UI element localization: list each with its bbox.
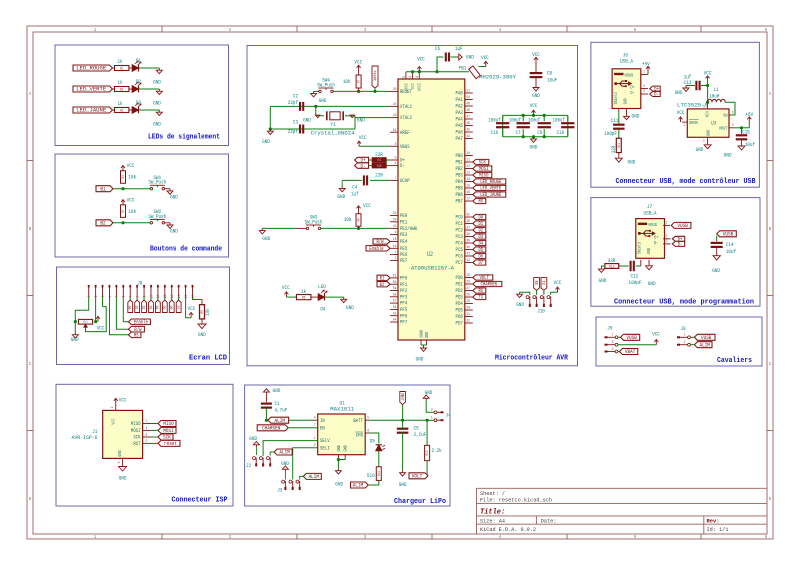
- svg-text:D3: D3: [147, 306, 151, 310]
- IC U3 LTC3525-5: [687, 109, 729, 137]
- svg-text:PD3: PD3: [456, 295, 463, 301]
- svg-text:PC7: PC7: [456, 260, 463, 266]
- svg-text:15: 15: [466, 185, 470, 189]
- svg-text:Connecteur USB, mode contrôleu: Connecteur USB, mode contrôleur USB: [616, 178, 757, 186]
- svg-text:R6: R6: [302, 296, 306, 300]
- capacitor C15 10uf: [741, 128, 743, 134]
- wire: [151, 442, 158, 444]
- svg-text:C4: C4: [352, 183, 357, 190]
- svg-text:Id: 1/1: Id: 1/1: [707, 527, 729, 533]
- svg-text:SCK: SCK: [133, 435, 141, 441]
- svg-text:1uf: 1uf: [351, 190, 359, 197]
- svg-text:PF6: PF6: [400, 313, 407, 319]
- svg-text:GND: GND: [262, 235, 270, 242]
- svg-text:EN: EN: [320, 425, 325, 431]
- svg-text:SW_Push: SW_Push: [148, 213, 166, 220]
- svg-text:R10: R10: [377, 165, 382, 169]
- svg-text:22pf: 22pf: [288, 128, 298, 135]
- VCC to SHDN: [682, 121, 687, 123]
- svg-text:D+: D+: [654, 234, 659, 240]
- svg-text:D5: D5: [161, 306, 165, 310]
- svg-text:GND: GND: [71, 336, 79, 343]
- svg-text:R4: R4: [122, 175, 126, 178]
- svg-text:4,7uF: 4,7uF: [275, 407, 288, 414]
- svg-text:GND: GND: [706, 130, 711, 136]
- IC U1 MAX1811: [318, 414, 366, 455]
- svg-text:J10: J10: [537, 307, 545, 314]
- svg-text:LED_JAUNE: LED_JAUNE: [480, 192, 501, 198]
- svg-text:GND: GND: [416, 355, 424, 362]
- svg-text:AT90USB1287-A: AT90USB1287-A: [411, 265, 455, 272]
- svg-text:100uf: 100uf: [553, 118, 565, 124]
- svg-text:34: 34: [393, 218, 397, 222]
- resistor R7 10k: [121, 205, 126, 218]
- svg-text:TX: TX: [478, 295, 483, 301]
- svg-text:SCK: SCK: [479, 160, 486, 166]
- ground: [343, 297, 345, 299]
- svg-text:SW_Push: SW_Push: [317, 81, 335, 88]
- wire BATT: [365, 419, 369, 421]
- ferrite bead FB1 MH2029-300Y: [469, 66, 481, 79]
- svg-text:VOLT: VOLT: [480, 275, 489, 281]
- svg-text:31: 31: [402, 75, 406, 79]
- global label B1 on PF0: [377, 275, 390, 280]
- svg-text:FB1: FB1: [459, 65, 467, 72]
- svg-text:PF2: PF2: [400, 288, 407, 294]
- svg-text:58: 58: [393, 293, 397, 297]
- ground: [402, 471, 404, 473]
- svg-text:CHARGEN: CHARGEN: [262, 425, 280, 432]
- svg-text:10k: 10k: [205, 308, 211, 315]
- LED D3: [129, 109, 132, 111]
- global label B2: [96, 220, 113, 226]
- svg-text:46: 46: [466, 122, 470, 126]
- svg-text:D2: D2: [478, 228, 483, 234]
- wire: [270, 452, 274, 456]
- svg-text:PA5: PA5: [456, 123, 463, 129]
- right side labels on U2: [473, 159, 489, 164]
- svg-text:D-: D-: [654, 92, 659, 98]
- svg-text:VCC: VCC: [97, 324, 105, 331]
- svg-text:Boutons de commande: Boutons de commande: [150, 246, 222, 254]
- wire: [186, 297, 192, 318]
- ground: [601, 266, 605, 269]
- svg-text:D7: D7: [478, 260, 483, 266]
- svg-text:D1: D1: [133, 306, 137, 310]
- VCC: [190, 313, 192, 318]
- svg-text:VBUS: VBUS: [624, 72, 633, 78]
- ground: [618, 153, 620, 159]
- svg-text:CHARGEN: CHARGEN: [481, 282, 497, 288]
- LED D1: [129, 67, 132, 69]
- svg-text:D5: D5: [478, 247, 483, 253]
- labels D0-D7: [129, 297, 131, 300]
- svg-text:ALIM: ALIM: [309, 473, 319, 480]
- resistor R5 10k: [200, 305, 205, 319]
- svg-text:VCC: VCC: [530, 102, 538, 109]
- svg-text:PB1: PB1: [456, 160, 463, 166]
- wire: [151, 429, 158, 431]
- section box Microcontroleur AVR: [247, 46, 578, 366]
- switch SW2 SW_Push: [150, 222, 152, 224]
- svg-text:VBAT: VBAT: [399, 393, 404, 401]
- svg-text:62: 62: [393, 129, 397, 133]
- capacitor C5 2,2uF: [397, 428, 409, 430]
- VCC: [707, 77, 709, 82]
- svg-text:GND: GND: [532, 92, 540, 99]
- svg-text:AREF: AREF: [400, 130, 410, 136]
- global label Enable on PE5: [366, 246, 390, 251]
- svg-text:RS: RS: [478, 199, 483, 205]
- ground: [426, 401, 434, 413]
- svg-text:PD5: PD5: [456, 308, 463, 314]
- ground: [626, 109, 628, 115]
- svg-text:C3: C3: [293, 118, 298, 125]
- resistor 33R: [616, 138, 621, 152]
- svg-text:PA7: PA7: [456, 136, 463, 142]
- svg-text:48: 48: [466, 109, 470, 113]
- svg-text:41: 41: [466, 253, 470, 257]
- svg-text:D1: D1: [136, 57, 141, 64]
- svg-text:10uf: 10uf: [745, 141, 755, 148]
- svg-text:1k: 1k: [117, 79, 122, 86]
- svg-text:GND: GND: [712, 267, 720, 274]
- section box Chargeur LiPo: [245, 385, 450, 506]
- svg-text:GND: GND: [153, 78, 161, 85]
- svg-text:Cavaliers: Cavaliers: [717, 357, 752, 365]
- ground: [165, 188, 171, 190]
- global label SCK: [158, 434, 173, 440]
- svg-text:GND: GND: [399, 481, 407, 488]
- svg-text:Shield: Shield: [614, 92, 619, 104]
- wire: [86, 307, 107, 332]
- global label LED_JAUNE: [73, 107, 112, 113]
- svg-text:D4: D4: [478, 241, 483, 247]
- crystal Y1 Crystal_GND24: [326, 111, 328, 120]
- svg-text:PD1: PD1: [456, 282, 463, 288]
- svg-text:BATT: BATT: [353, 418, 363, 424]
- svg-text:RX: RX: [533, 281, 539, 285]
- svg-text:26: 26: [466, 281, 470, 285]
- capacitor C14 10uf and VUSB: [717, 231, 737, 237]
- wire to VCC: [618, 344, 656, 346]
- svg-text:XTAL1: XTAL1: [400, 104, 412, 110]
- svg-text:GND: GND: [530, 144, 538, 151]
- svg-text:ALIM: ALIM: [279, 449, 289, 456]
- shield pin: [640, 260, 642, 266]
- svg-text:100uf: 100uf: [528, 118, 540, 124]
- svg-text:Connecteur ISP: Connecteur ISP: [172, 497, 229, 505]
- svg-text:PE4: PE4: [400, 239, 407, 245]
- svg-text:PB3: PB3: [456, 173, 463, 179]
- pin VBUS to VUSB: [663, 224, 670, 226]
- global label VOLT: [409, 473, 428, 479]
- svg-text:B1: B1: [100, 185, 106, 192]
- svg-text:61: 61: [393, 275, 397, 279]
- svg-text:UGND: UGND: [419, 330, 424, 338]
- section box Cavaliers: [596, 317, 762, 366]
- svg-text:VUSB: VUSB: [723, 231, 734, 238]
- svg-text:PF0: PF0: [400, 276, 407, 282]
- svg-text:1k: 1k: [117, 100, 122, 107]
- svg-text:GND: GND: [118, 450, 123, 456]
- ground: [421, 344, 427, 346]
- svg-text:GND: GND: [119, 474, 127, 481]
- svg-text:56: 56: [393, 306, 397, 310]
- svg-text:GND: GND: [303, 116, 311, 123]
- wire: [139, 109, 160, 111]
- global label LED_ROUGE: [73, 65, 112, 71]
- wire: [139, 67, 160, 69]
- VCC: [122, 200, 124, 205]
- svg-text:PF4: PF4: [400, 301, 407, 307]
- svg-text:GND: GND: [675, 89, 683, 96]
- svg-text:GND: GND: [153, 99, 161, 106]
- svg-text:PE2/HWB: PE2/HWB: [400, 226, 417, 232]
- svg-text:SELI: SELI: [320, 445, 330, 451]
- ground: [74, 333, 76, 335]
- svg-text:PD2: PD2: [456, 288, 463, 294]
- VCC rail on top of U2: [406, 71, 469, 73]
- svg-text:GND: GND: [335, 481, 343, 488]
- switch SW3 and resistor on PE2: [321, 227, 390, 229]
- svg-text:64: 64: [416, 75, 420, 79]
- title block: [477, 487, 768, 489]
- svg-text:GND: GND: [337, 193, 345, 200]
- svg-text:31: 31: [466, 313, 470, 317]
- svg-text:35: 35: [466, 214, 470, 218]
- crystal ground stubs: [316, 115, 321, 118]
- capacitor C6 1uF: [437, 57, 443, 72]
- svg-text:VCC: VCC: [652, 330, 660, 337]
- svg-text:22R: 22R: [375, 172, 383, 179]
- global label RS: [128, 332, 141, 338]
- svg-text:40: 40: [466, 246, 470, 250]
- connector J6 USB_A: [612, 69, 641, 109]
- global label reset: [158, 440, 180, 446]
- VCC: [122, 166, 124, 171]
- svg-text:45: 45: [466, 129, 470, 133]
- svg-text:VCC: VCC: [554, 279, 562, 286]
- svg-text:GND: GND: [724, 151, 732, 158]
- svg-text:GND: GND: [319, 97, 327, 104]
- svg-text:U2: U2: [427, 251, 433, 258]
- svg-text:32: 32: [466, 320, 470, 324]
- svg-text:2,2uF: 2,2uF: [414, 431, 427, 438]
- svg-text:Y1: Y1: [330, 121, 336, 128]
- svg-text:D0: D0: [127, 306, 131, 310]
- svg-text:GND: GND: [343, 445, 349, 452]
- svg-text:14: 14: [466, 178, 470, 182]
- svg-text:Crystal_GND24: Crystal_GND24: [311, 131, 355, 137]
- svg-text:GND: GND: [696, 146, 704, 153]
- svg-text:D7: D7: [175, 306, 179, 310]
- ground: [201, 319, 203, 324]
- svg-text:22R: 22R: [375, 151, 383, 158]
- svg-text:PC1: PC1: [456, 221, 463, 227]
- svg-text:1k: 1k: [301, 288, 306, 295]
- capacitor C11 100pF: [618, 109, 620, 113]
- LED D2: [129, 88, 132, 90]
- svg-text:60: 60: [393, 281, 397, 285]
- ground: [520, 292, 530, 295]
- svg-text:SELV: SELV: [320, 438, 330, 444]
- global label VUSB: [621, 334, 640, 340]
- svg-text:ALIM: ALIM: [353, 482, 363, 489]
- svg-text:AVCC: AVCC: [418, 83, 423, 91]
- svg-text:D-: D-: [678, 242, 683, 248]
- connector J7 USB_A: [636, 219, 665, 259]
- left pins of U2: [390, 88, 417, 326]
- svg-text:PB6: PB6: [456, 192, 463, 198]
- svg-text:PE0: PE0: [400, 213, 407, 219]
- svg-text:SW_Push: SW_Push: [148, 179, 166, 186]
- bottom pins UGND GND: [419, 330, 430, 345]
- global label Enable: [128, 319, 150, 325]
- global label R/W: [128, 326, 144, 332]
- svg-text:2.2k: 2.2k: [432, 447, 442, 454]
- wire: [193, 297, 203, 305]
- svg-text:VCC: VCC: [127, 196, 135, 203]
- wire: [75, 297, 88, 333]
- svg-text:GND: GND: [648, 280, 656, 287]
- crystal circuit C2 C3 Y1: [270, 105, 390, 107]
- svg-text:100uf: 100uf: [509, 118, 521, 124]
- svg-text:GND: GND: [647, 248, 652, 254]
- svg-text:Enable: Enable: [369, 246, 383, 252]
- label VBAT vertical: [400, 392, 406, 405]
- VBUS to VCC: [359, 145, 390, 147]
- resistor R6 1k: [296, 295, 311, 300]
- svg-text:PC0: PC0: [456, 215, 463, 221]
- svg-text:1uF: 1uF: [455, 45, 463, 52]
- svg-text:Chargeur LiPo: Chargeur LiPo: [394, 498, 446, 506]
- svg-text:10k: 10k: [343, 78, 351, 85]
- potentiometer RV1: [78, 319, 92, 324]
- svg-text:XTAL2: XTAL2: [400, 115, 412, 121]
- svg-text:J5: J5: [607, 324, 612, 331]
- wire: [95, 297, 97, 322]
- svg-text:44: 44: [466, 135, 470, 139]
- global label LED_VERTE: [73, 86, 112, 92]
- svg-text:50: 50: [466, 96, 470, 100]
- svg-text:29: 29: [466, 300, 470, 304]
- resistor R2 1k: [112, 88, 114, 90]
- svg-text:ALIM: ALIM: [275, 417, 285, 424]
- svg-text:R14: R14: [378, 471, 382, 476]
- svg-text:MAX1811: MAX1811: [330, 405, 355, 412]
- ground pin: [648, 260, 650, 264]
- svg-text:PA2: PA2: [456, 104, 463, 110]
- connector J4: [434, 411, 437, 414]
- svg-text:PD7: PD7: [456, 321, 463, 327]
- svg-text:C6: C6: [435, 45, 440, 52]
- svg-text:57: 57: [393, 300, 397, 304]
- ground: [451, 56, 458, 58]
- global label ALIM: [368, 481, 379, 486]
- svg-text:C7: C7: [516, 130, 521, 136]
- section box LEDs de signalement: [55, 45, 229, 146]
- svg-text:D6: D6: [478, 254, 483, 260]
- resistor R10 22R: [369, 165, 373, 167]
- svg-text:PB4: PB4: [456, 179, 463, 185]
- svg-text:SHDN: SHDN: [689, 120, 698, 126]
- wire: [151, 423, 158, 425]
- svg-text:510: 510: [367, 472, 375, 479]
- svg-text:D-: D-: [361, 163, 366, 169]
- svg-text:C16: C16: [491, 130, 498, 136]
- resistor R8 10k: [356, 214, 361, 227]
- svg-text:42: 42: [466, 259, 470, 263]
- svg-text:Rev:: Rev:: [707, 518, 720, 524]
- svg-text:36: 36: [466, 220, 470, 224]
- section box Connecteur USB mode controleur USB: [591, 42, 760, 187]
- svg-text:R9: R9: [378, 159, 381, 163]
- svg-text:VCC: VCC: [112, 418, 117, 424]
- svg-text:PD6: PD6: [456, 314, 463, 320]
- svg-text:B1: B1: [380, 276, 385, 282]
- global label VUSB: [694, 334, 715, 340]
- svg-text:PB5: PB5: [456, 186, 463, 192]
- ground: [165, 222, 171, 224]
- svg-text:10k: 10k: [128, 174, 136, 181]
- svg-text:RX: RX: [478, 288, 483, 294]
- svg-text:43: 43: [393, 225, 397, 229]
- wire: [266, 419, 313, 421]
- svg-text:R11: R11: [618, 143, 622, 148]
- svg-text:D-: D-: [630, 90, 635, 96]
- svg-text:LED_JAUNE: LED_JAUNE: [76, 107, 107, 114]
- svg-text:10k: 10k: [128, 208, 136, 215]
- svg-text:51: 51: [466, 90, 470, 94]
- svg-text:reset: reset: [164, 440, 177, 447]
- svg-text:D1: D1: [478, 221, 483, 227]
- svg-text:49: 49: [466, 103, 470, 107]
- svg-text:KiCad E.D.A. 9.0.2: KiCad E.D.A. 9.0.2: [480, 527, 536, 533]
- connector J1 AVR-ISP-6: [103, 410, 143, 458]
- svg-text:B2: B2: [100, 220, 105, 227]
- LED D5: [365, 432, 369, 434]
- global label ALIM: [268, 417, 289, 423]
- svg-text:59: 59: [393, 287, 397, 291]
- svg-text:B2: B2: [380, 282, 385, 288]
- svg-text:IN: IN: [320, 418, 325, 424]
- svg-text:GND: GND: [262, 138, 270, 145]
- svg-text:D-: D-: [400, 163, 405, 169]
- section box Boutons de commande: [55, 154, 229, 257]
- svg-text:33R: 33R: [611, 146, 617, 153]
- svg-text:23: 23: [393, 114, 397, 118]
- svg-text:VUSB: VUSB: [677, 222, 688, 229]
- svg-text:VCC: VCC: [363, 202, 371, 209]
- resistor R1 1k: [112, 67, 114, 69]
- svg-text:reset: reset: [371, 70, 377, 81]
- svg-text:VCC: VCC: [359, 134, 367, 141]
- VCC: [479, 66, 486, 68]
- resistor R4 10k: [121, 171, 126, 184]
- svg-text:33: 33: [393, 212, 397, 216]
- pins D+ D-: [641, 88, 648, 90]
- global label VBAT: [619, 349, 637, 355]
- labels RX TX vertical: [534, 278, 540, 291]
- svg-text:D3: D3: [478, 234, 483, 240]
- svg-text:VIN: VIN: [704, 111, 709, 117]
- svg-text:VCC: VCC: [417, 55, 425, 62]
- svg-text:LED_VERTE: LED_VERTE: [480, 186, 501, 192]
- svg-text:RS: RS: [134, 333, 139, 339]
- svg-text:Shield: Shield: [638, 242, 643, 254]
- svg-text:PA0: PA0: [456, 91, 463, 97]
